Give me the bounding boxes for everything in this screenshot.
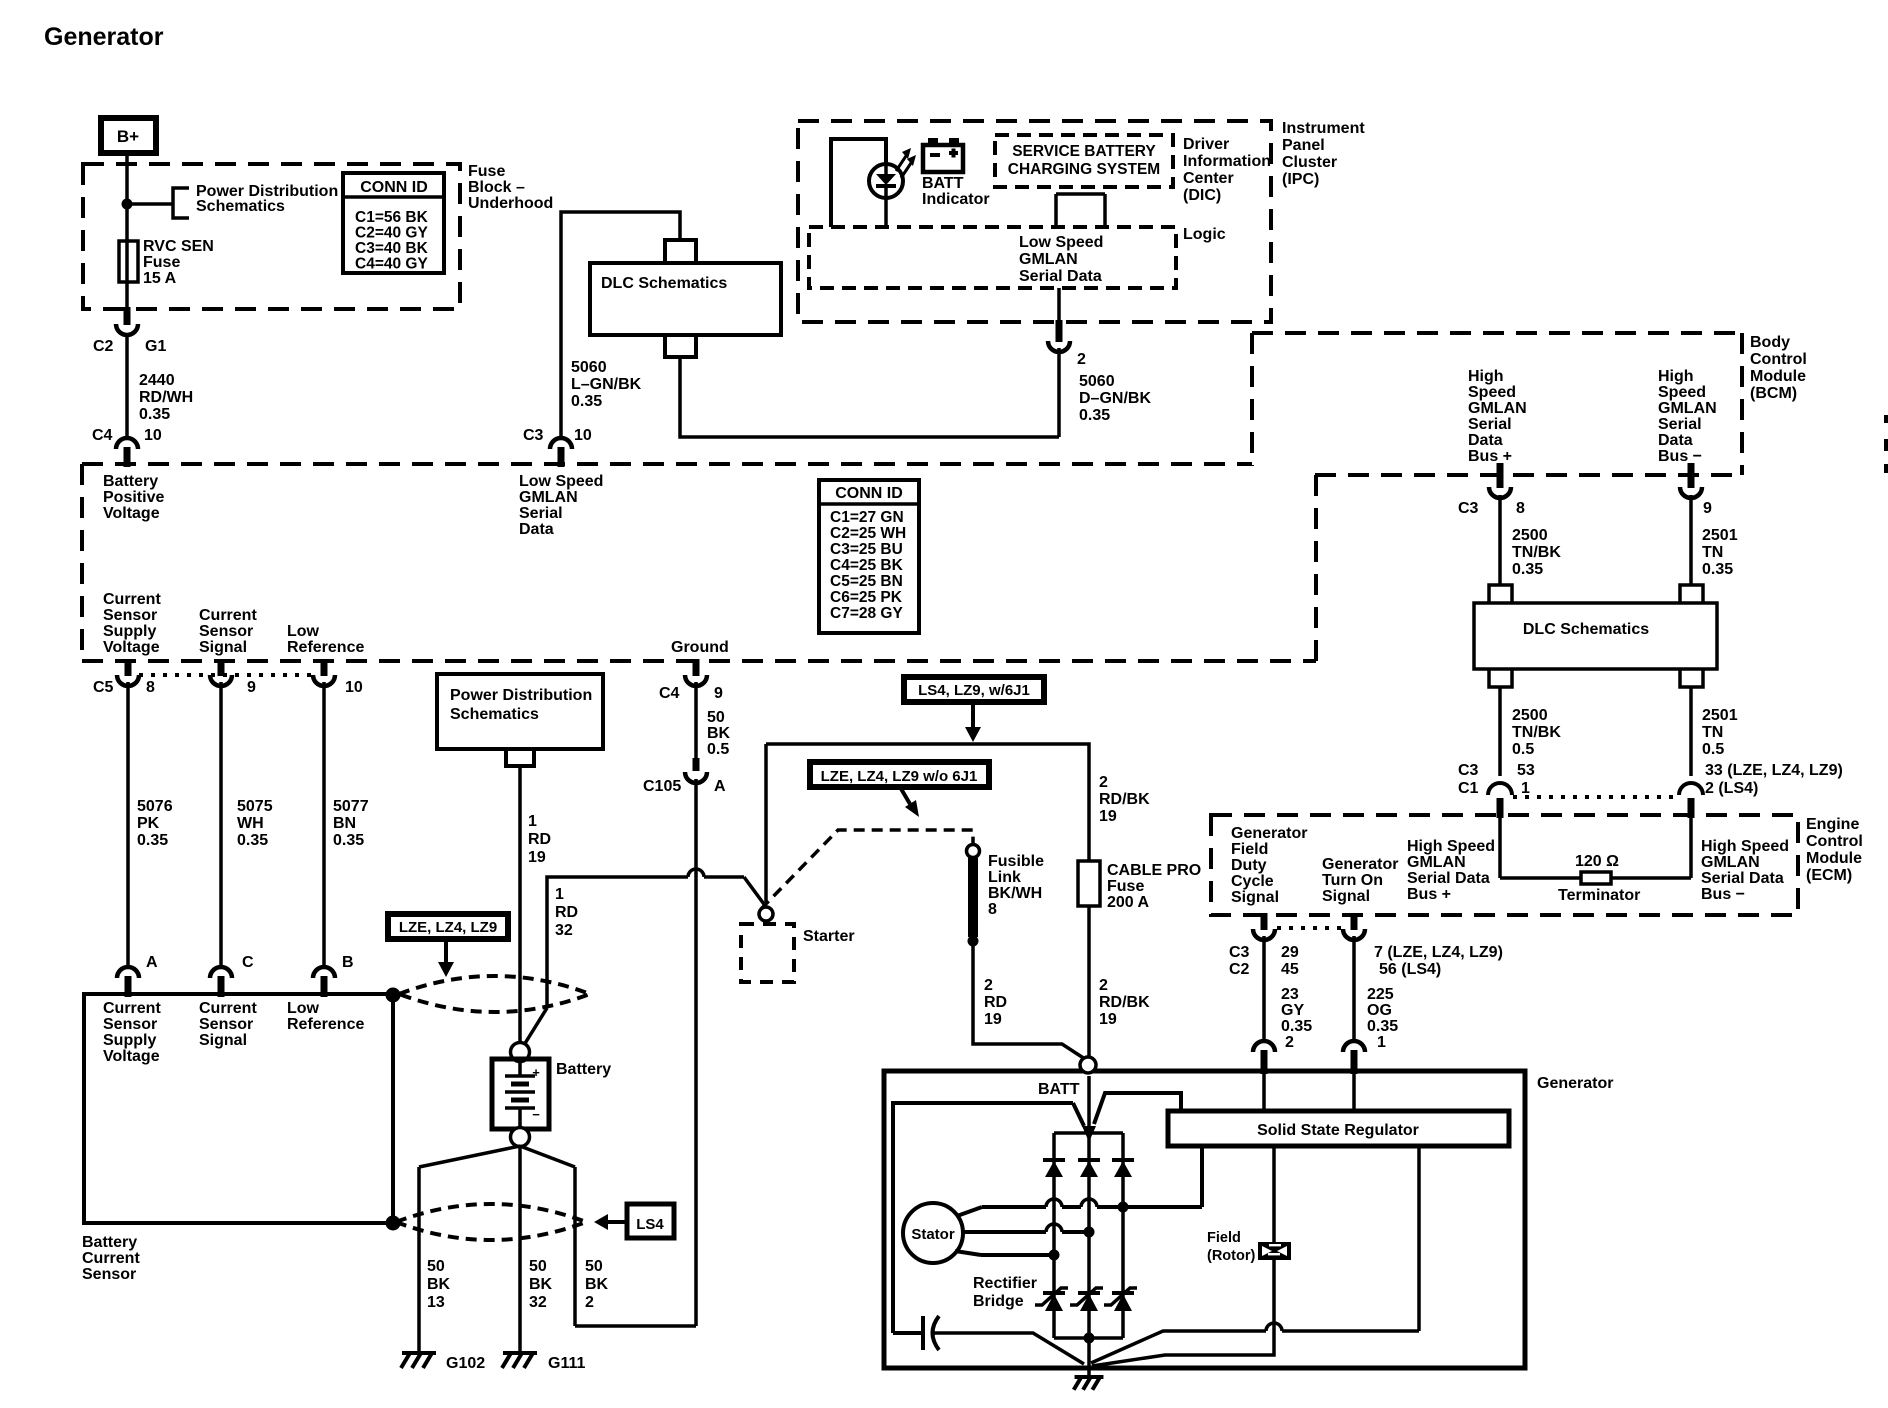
svg-text:2440: 2440 — [139, 372, 175, 389]
svg-text:2: 2 — [984, 977, 993, 994]
svg-text:C3=25 BU: C3=25 BU — [830, 541, 903, 558]
svg-text:Cycle: Cycle — [1231, 873, 1274, 890]
svg-text:G1: G1 — [145, 338, 166, 355]
svg-text:Sensor: Sensor — [103, 1016, 157, 1033]
svg-text:C1: C1 — [1458, 780, 1479, 797]
svg-text:+: + — [532, 1065, 540, 1080]
svg-text:Serial: Serial — [1468, 416, 1512, 433]
svg-text:19: 19 — [984, 1011, 1002, 1028]
svg-text:8: 8 — [988, 901, 997, 918]
svg-text:200 A: 200 A — [1107, 894, 1150, 911]
svg-text:GMLAN: GMLAN — [1019, 251, 1078, 268]
svg-text:9: 9 — [247, 679, 256, 696]
svg-text:Reference: Reference — [287, 639, 364, 656]
svg-text:2501: 2501 — [1702, 527, 1738, 544]
svg-text:Speed: Speed — [1468, 384, 1516, 401]
svg-text:Duty: Duty — [1231, 857, 1267, 874]
svg-text:Bus −: Bus − — [1658, 448, 1702, 465]
svg-text:C5: C5 — [93, 679, 114, 696]
svg-text:Data: Data — [1468, 432, 1503, 449]
svg-text:Low: Low — [287, 1000, 320, 1017]
svg-text:45: 45 — [1281, 961, 1299, 978]
svg-text:Reference: Reference — [287, 1016, 364, 1033]
svg-text:C5=25 BN: C5=25 BN — [830, 573, 903, 590]
svg-text:C4: C4 — [659, 685, 680, 702]
svg-text:Bus −: Bus − — [1701, 886, 1745, 903]
svg-text:Cluster: Cluster — [1282, 154, 1337, 171]
svg-text:RD: RD — [555, 904, 578, 921]
svg-text:19: 19 — [528, 849, 546, 866]
svg-text:BN: BN — [333, 815, 356, 832]
svg-text:5077: 5077 — [333, 798, 369, 815]
svg-text:C3: C3 — [1458, 762, 1479, 779]
svg-text:Module: Module — [1806, 850, 1862, 867]
svg-text:Starter: Starter — [803, 928, 855, 945]
svg-text:Current: Current — [199, 607, 257, 624]
svg-text:Control: Control — [1806, 833, 1863, 850]
svg-text:5060: 5060 — [1079, 373, 1115, 390]
svg-text:C105: C105 — [643, 778, 681, 795]
svg-text:Panel: Panel — [1282, 137, 1325, 154]
svg-text:0.35: 0.35 — [137, 832, 168, 849]
svg-text:BATT: BATT — [1038, 1081, 1080, 1098]
svg-text:RD/BK: RD/BK — [1099, 791, 1150, 808]
svg-text:C2=25 WH: C2=25 WH — [830, 525, 906, 542]
svg-text:Voltage: Voltage — [103, 1048, 160, 1065]
svg-text:OG: OG — [1367, 1002, 1392, 1019]
svg-text:13: 13 — [427, 1294, 445, 1311]
svg-text:2501: 2501 — [1702, 707, 1738, 724]
svg-text:CONN ID: CONN ID — [835, 485, 903, 502]
svg-text:10: 10 — [574, 427, 592, 444]
svg-text:Current: Current — [103, 591, 161, 608]
svg-text:7 (LZE, LZ4, LZ9): 7 (LZE, LZ4, LZ9) — [1374, 944, 1503, 961]
svg-text:Schematics: Schematics — [196, 198, 285, 215]
svg-text:225: 225 — [1367, 986, 1394, 1003]
svg-text:Serial: Serial — [1658, 416, 1702, 433]
svg-text:10: 10 — [144, 427, 162, 444]
svg-text:Battery: Battery — [556, 1061, 611, 1078]
svg-text:C7=28 GY: C7=28 GY — [830, 605, 903, 622]
svg-text:23: 23 — [1281, 986, 1299, 1003]
svg-text:5075: 5075 — [237, 798, 273, 815]
svg-text:Data: Data — [1658, 432, 1693, 449]
svg-text:1: 1 — [528, 813, 537, 830]
svg-text:Serial Data: Serial Data — [1019, 268, 1102, 285]
svg-text:15 A: 15 A — [143, 270, 177, 287]
svg-text:RVC SEN: RVC SEN — [143, 238, 214, 255]
svg-text:Control: Control — [1750, 351, 1807, 368]
svg-text:C6=25 PK: C6=25 PK — [830, 589, 903, 606]
svg-text:Logic: Logic — [1183, 226, 1226, 243]
svg-text:CONN ID: CONN ID — [360, 179, 428, 196]
svg-text:Link: Link — [988, 869, 1021, 886]
svg-text:50: 50 — [585, 1258, 603, 1275]
svg-text:5060: 5060 — [571, 359, 607, 376]
svg-text:C3=40 BK: C3=40 BK — [355, 240, 429, 257]
svg-text:G111: G111 — [548, 1355, 585, 1372]
svg-text:Turn On: Turn On — [1322, 872, 1383, 889]
svg-text:High: High — [1658, 368, 1694, 385]
svg-text:(ECM): (ECM) — [1806, 867, 1852, 884]
svg-text:C3: C3 — [1229, 944, 1250, 961]
svg-text:8: 8 — [1516, 500, 1525, 517]
svg-text:Serial Data: Serial Data — [1407, 870, 1490, 887]
svg-text:Schematics: Schematics — [450, 706, 539, 723]
svg-text:GMLAN: GMLAN — [519, 489, 578, 506]
svg-text:−: − — [532, 1107, 540, 1122]
svg-text:C3: C3 — [523, 427, 544, 444]
svg-text:Sensor: Sensor — [82, 1266, 136, 1283]
svg-text:0.35: 0.35 — [571, 393, 602, 410]
svg-text:Field: Field — [1231, 841, 1268, 858]
svg-text:Serial: Serial — [519, 505, 563, 522]
svg-text:Driver: Driver — [1183, 136, 1229, 153]
svg-text:Low Speed: Low Speed — [519, 473, 603, 490]
svg-text:Center: Center — [1183, 170, 1234, 187]
svg-text:LS4: LS4 — [636, 1216, 664, 1233]
svg-text:Data: Data — [519, 521, 554, 538]
svg-text:B: B — [342, 954, 354, 971]
svg-text:Rectifier: Rectifier — [973, 1275, 1037, 1292]
svg-text:D–GN/BK: D–GN/BK — [1079, 390, 1151, 407]
svg-text:Voltage: Voltage — [103, 639, 160, 656]
svg-text:0.5: 0.5 — [707, 741, 729, 758]
svg-text:Block –: Block – — [468, 179, 525, 196]
svg-text:Signal: Signal — [1231, 889, 1279, 906]
svg-text:B+: B+ — [117, 127, 139, 146]
svg-text:50: 50 — [707, 709, 725, 726]
svg-text:LZE, LZ4, LZ9 w/o 6J1: LZE, LZ4, LZ9 w/o 6J1 — [821, 768, 978, 785]
svg-text:C4=40 GY: C4=40 GY — [355, 256, 428, 273]
svg-text:2500: 2500 — [1512, 527, 1548, 544]
svg-text:G102: G102 — [446, 1355, 485, 1372]
svg-text:Generator: Generator — [1231, 825, 1307, 842]
svg-text:Low: Low — [287, 623, 320, 640]
svg-text:GMLAN: GMLAN — [1468, 400, 1527, 417]
svg-text:RD/WH: RD/WH — [139, 389, 193, 406]
svg-text:High Speed: High Speed — [1407, 838, 1495, 855]
svg-text:0.35: 0.35 — [1702, 561, 1733, 578]
svg-text:C2: C2 — [93, 338, 114, 355]
svg-text:Ground: Ground — [671, 639, 729, 656]
svg-text:Fusible: Fusible — [988, 853, 1044, 870]
svg-text:BK: BK — [427, 1276, 451, 1293]
svg-text:Terminator: Terminator — [1558, 887, 1640, 904]
svg-text:LZE, LZ4, LZ9: LZE, LZ4, LZ9 — [399, 919, 497, 936]
svg-text:Fuse: Fuse — [468, 163, 505, 180]
svg-text:SERVICE BATTERY: SERVICE BATTERY — [1012, 143, 1156, 160]
svg-text:8: 8 — [146, 679, 155, 696]
svg-text:1: 1 — [1521, 780, 1530, 797]
svg-text:CABLE PRO: CABLE PRO — [1107, 862, 1201, 879]
svg-text:Low Speed: Low Speed — [1019, 234, 1103, 251]
svg-text:0.35: 0.35 — [1281, 1018, 1312, 1035]
svg-text:Bus +: Bus + — [1468, 448, 1512, 465]
svg-text:Battery: Battery — [103, 473, 158, 490]
svg-text:C2: C2 — [1229, 961, 1250, 978]
svg-text:0.35: 0.35 — [1079, 407, 1110, 424]
svg-text:GMLAN: GMLAN — [1407, 854, 1466, 871]
svg-text:Sensor: Sensor — [199, 623, 253, 640]
svg-text:Speed: Speed — [1658, 384, 1706, 401]
svg-text:L–GN/BK: L–GN/BK — [571, 376, 642, 393]
svg-text:A: A — [714, 778, 726, 795]
svg-text:Fuse: Fuse — [1107, 878, 1144, 895]
svg-text:LS4, LZ9, w/6J1: LS4, LZ9, w/6J1 — [918, 682, 1030, 699]
svg-text:2: 2 — [1099, 977, 1108, 994]
svg-text:120 Ω: 120 Ω — [1575, 853, 1619, 870]
svg-text:CHARGING SYSTEM: CHARGING SYSTEM — [1008, 161, 1160, 178]
svg-text:2: 2 — [585, 1294, 594, 1311]
svg-text:2: 2 — [1099, 774, 1108, 791]
svg-text:Supply: Supply — [103, 623, 156, 640]
svg-text:1: 1 — [1377, 1034, 1386, 1051]
svg-text:Solid State Regulator: Solid State Regulator — [1257, 1122, 1419, 1139]
svg-text:Field: Field — [1207, 1230, 1241, 1246]
svg-text:Indicator: Indicator — [922, 191, 990, 208]
svg-text:32: 32 — [555, 922, 573, 939]
svg-text:Instrument: Instrument — [1282, 120, 1365, 137]
svg-text:GY: GY — [1281, 1002, 1304, 1019]
svg-text:Positive: Positive — [103, 489, 164, 506]
svg-text:C4: C4 — [92, 427, 113, 444]
svg-text:BK/WH: BK/WH — [988, 885, 1042, 902]
svg-text:Voltage: Voltage — [103, 505, 160, 522]
svg-text:Underhood: Underhood — [468, 195, 553, 212]
svg-text:Signal: Signal — [199, 1032, 247, 1049]
svg-text:Generator: Generator — [44, 23, 164, 51]
svg-text:High: High — [1468, 368, 1504, 385]
svg-text:Module: Module — [1750, 368, 1806, 385]
svg-text:9: 9 — [714, 685, 723, 702]
svg-text:50: 50 — [427, 1258, 445, 1275]
svg-text:C4=25 BK: C4=25 BK — [830, 557, 904, 574]
svg-text:(DIC): (DIC) — [1183, 187, 1221, 204]
svg-text:Current: Current — [82, 1250, 140, 1267]
svg-text:Power Distribution: Power Distribution — [450, 687, 592, 704]
svg-text:C3: C3 — [1458, 500, 1479, 517]
svg-text:BK: BK — [529, 1276, 553, 1293]
svg-text:Engine: Engine — [1806, 816, 1859, 833]
svg-text:DLC Schematics: DLC Schematics — [601, 275, 727, 292]
svg-text:19: 19 — [1099, 808, 1117, 825]
svg-text:A: A — [146, 954, 158, 971]
svg-text:10: 10 — [345, 679, 363, 696]
svg-text:Sensor: Sensor — [103, 607, 157, 624]
svg-text:Serial Data: Serial Data — [1701, 870, 1784, 887]
svg-text:(IPC): (IPC) — [1282, 171, 1319, 188]
svg-text:WH: WH — [237, 815, 264, 832]
svg-text:Body: Body — [1750, 334, 1790, 351]
svg-text:1: 1 — [555, 886, 564, 903]
svg-text:(Rotor): (Rotor) — [1207, 1248, 1255, 1264]
svg-text:2 (LS4): 2 (LS4) — [1705, 780, 1758, 797]
svg-text:0.35: 0.35 — [333, 832, 364, 849]
svg-text:BATT: BATT — [922, 175, 964, 192]
svg-text:56 (LS4): 56 (LS4) — [1379, 961, 1441, 978]
svg-text:Information: Information — [1183, 153, 1271, 170]
svg-text:32: 32 — [529, 1294, 547, 1311]
svg-text:TN/BK: TN/BK — [1512, 724, 1561, 741]
svg-text:Generator: Generator — [1322, 856, 1398, 873]
svg-text:Generator: Generator — [1537, 1075, 1613, 1092]
svg-text:Sensor: Sensor — [199, 1016, 253, 1033]
svg-text:C2=40 GY: C2=40 GY — [355, 225, 428, 242]
svg-text:TN/BK: TN/BK — [1512, 544, 1561, 561]
svg-text:0.35: 0.35 — [237, 832, 268, 849]
svg-text:0.35: 0.35 — [1512, 561, 1543, 578]
svg-text:GMLAN: GMLAN — [1658, 400, 1717, 417]
svg-text:33 (LZE, LZ4, LZ9): 33 (LZE, LZ4, LZ9) — [1705, 762, 1843, 779]
svg-text:Supply: Supply — [103, 1032, 156, 1049]
svg-text:PK: PK — [137, 815, 160, 832]
svg-text:TN: TN — [1702, 724, 1723, 741]
svg-text:RD: RD — [528, 831, 551, 848]
svg-text:50: 50 — [529, 1258, 547, 1275]
svg-text:Current: Current — [103, 1000, 161, 1017]
svg-text:Battery: Battery — [82, 1234, 137, 1251]
svg-text:Stator: Stator — [911, 1226, 955, 1243]
svg-text:Bridge: Bridge — [973, 1293, 1024, 1310]
svg-text:0.5: 0.5 — [1512, 741, 1534, 758]
svg-text:C1=27 GN: C1=27 GN — [830, 509, 904, 526]
svg-text:2: 2 — [1285, 1034, 1294, 1051]
svg-text:0.35: 0.35 — [1367, 1018, 1398, 1035]
svg-text:DLC Schematics: DLC Schematics — [1523, 621, 1649, 638]
svg-text:C: C — [242, 954, 254, 971]
svg-text:Signal: Signal — [199, 639, 247, 656]
svg-text:High Speed: High Speed — [1701, 838, 1789, 855]
svg-text:TN: TN — [1702, 544, 1723, 561]
svg-text:GMLAN: GMLAN — [1701, 854, 1760, 871]
svg-text:53: 53 — [1517, 762, 1535, 779]
svg-text:(BCM): (BCM) — [1750, 385, 1797, 402]
svg-text:RD/BK: RD/BK — [1099, 994, 1150, 1011]
svg-text:0.5: 0.5 — [1702, 741, 1724, 758]
svg-text:RD: RD — [984, 994, 1007, 1011]
svg-text:29: 29 — [1281, 944, 1299, 961]
svg-text:Current: Current — [199, 1000, 257, 1017]
svg-text:BK: BK — [585, 1276, 609, 1293]
svg-text:0.35: 0.35 — [139, 406, 170, 423]
svg-text:5076: 5076 — [137, 798, 173, 815]
svg-text:19: 19 — [1099, 1011, 1117, 1028]
svg-text:9: 9 — [1703, 500, 1712, 517]
svg-text:2: 2 — [1077, 351, 1086, 368]
svg-text:Bus +: Bus + — [1407, 886, 1451, 903]
svg-text:Signal: Signal — [1322, 888, 1370, 905]
svg-text:2500: 2500 — [1512, 707, 1548, 724]
svg-text:Fuse: Fuse — [143, 254, 180, 271]
svg-text:C1=56 BK: C1=56 BK — [355, 209, 429, 226]
svg-text:BK: BK — [707, 725, 731, 742]
